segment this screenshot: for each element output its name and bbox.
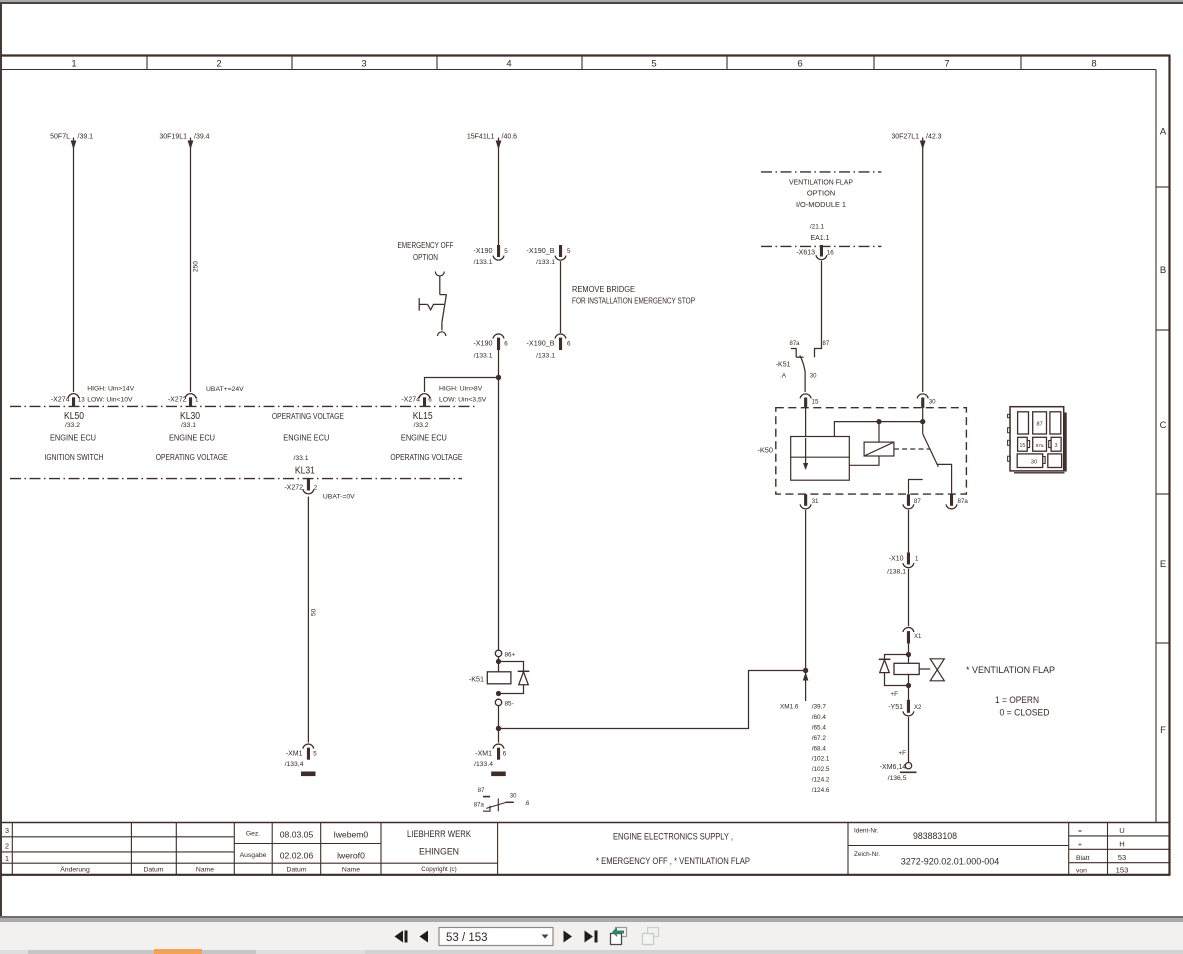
svg-text:6: 6 <box>567 340 571 347</box>
svg-text:1: 1 <box>195 397 199 404</box>
svg-text:-XM6,14: -XM6,14 <box>880 764 907 771</box>
svg-text:87a: 87a <box>474 803 485 809</box>
svg-text:KL50: KL50 <box>64 411 84 422</box>
arrow inside control block <box>803 438 808 470</box>
svg-text:OPTION: OPTION <box>807 189 835 198</box>
svg-text:/42.3: /42.3 <box>926 134 942 141</box>
wire solenoid to X2 <box>908 675 910 700</box>
window left edge <box>0 3 2 916</box>
svg-text:86+: 86+ <box>505 651 516 658</box>
svg-text:/133.1: /133.1 <box>536 352 555 359</box>
label VENTILATION FLAP OPTION I/O-MODULE 1 <box>789 178 853 209</box>
svg-text:ENGINE ECU: ENGINE ECU <box>401 433 447 443</box>
svg-text:6: 6 <box>428 397 432 404</box>
svg-text:* EMERGENCY OFF , * VENTILATIO: * EMERGENCY OFF , * VENTILATION FLAP <box>596 856 750 866</box>
wire rail to K50 coil <box>878 422 880 443</box>
sheet reference list <box>812 704 830 794</box>
wire X190 p6 down <box>498 350 500 378</box>
ground bar col3 <box>301 772 316 777</box>
svg-text:1: 1 <box>71 59 76 70</box>
svg-text:/21.1: /21.1 <box>810 224 825 231</box>
svg-text:87: 87 <box>823 341 830 347</box>
svg-text:OPERATING VOLTAGE: OPERATING VOLTAGE <box>272 411 344 421</box>
svg-text:2: 2 <box>216 59 221 70</box>
svg-text:Ident-Nr.: Ident-Nr. <box>854 828 879 835</box>
svg-text:F: F <box>1160 725 1166 736</box>
svg-text:6: 6 <box>797 59 802 70</box>
node junction to KL15 <box>496 375 501 380</box>
svg-text:15: 15 <box>812 399 819 406</box>
svg-text:-K51: -K51 <box>776 362 791 369</box>
connector K50 pin 30 <box>917 394 928 408</box>
svg-text:153: 153 <box>1116 866 1129 875</box>
svg-text:-X613: -X613 <box>796 250 815 257</box>
svg-text:1 = OPERN: 1 = OPERN <box>995 694 1039 705</box>
wire pin30 to contact pivot <box>922 408 924 434</box>
svg-text:A: A <box>1160 127 1167 138</box>
svg-text:87: 87 <box>478 788 485 794</box>
svg-text:85-: 85- <box>505 700 514 707</box>
svg-text:/39.4: /39.4 <box>194 134 210 141</box>
svg-text:87a: 87a <box>1036 443 1044 449</box>
svg-text:250: 250 <box>193 261 200 272</box>
svg-text:C: C <box>1160 420 1167 431</box>
svg-text:Name: Name <box>196 867 214 874</box>
ruler column ticks <box>147 56 1021 70</box>
diode D (flyback across Y51 solenoid) <box>879 655 909 686</box>
svg-text:/138,1: /138,1 <box>887 569 906 576</box>
K50 control block <box>791 437 850 481</box>
svg-text:30: 30 <box>929 399 936 406</box>
wire blade to pin 87a <box>937 464 952 494</box>
header labels Aenderung Datum Name <box>60 866 214 874</box>
wire 85- net to XM1.6 node <box>499 671 806 729</box>
svg-text:1: 1 <box>5 854 9 863</box>
TITLEBLOCK <box>1 823 1170 875</box>
svg-text:/102.5: /102.5 <box>812 766 830 773</box>
K51 contact blade to pin 30 <box>800 355 805 392</box>
svg-text:+F: +F <box>898 750 906 757</box>
svg-text:0 = CLOSED: 0 = CLOSED <box>1000 706 1050 717</box>
svg-text:/124.2: /124.2 <box>812 777 830 784</box>
SCHEMATIC3 <box>757 172 1065 794</box>
row letters <box>1160 127 1167 737</box>
label EMERGENCY OFF OPTION <box>398 241 454 262</box>
svg-text:.6: .6 <box>524 801 530 807</box>
svg-text:/65.4: /65.4 <box>812 725 827 732</box>
ground bar col4 <box>491 772 506 777</box>
wire 15F41L1 (sheet ref /40.6) with down arrow <box>496 138 502 246</box>
svg-text:15F41L1: 15F41L1 <box>467 134 495 141</box>
node branch to K50 pin31 net <box>496 726 501 731</box>
connector -X274 pin 13 (KL50) <box>68 394 79 407</box>
connector -X190 pin 5 <box>493 245 504 260</box>
terminal -XM1 pin 6 <box>493 744 504 760</box>
svg-text:* VENTILATION FLAP: * VENTILATION FLAP <box>966 664 1055 675</box>
svg-text:/60.4: /60.4 <box>812 714 827 721</box>
chassis bar XM6,14 <box>900 771 917 773</box>
svg-text:Datum: Datum <box>286 867 306 874</box>
valve link <box>919 668 930 670</box>
label HIGH/LOW thresholds KL50 <box>87 386 134 404</box>
connector -X10 pin 1 <box>903 553 914 568</box>
svg-text:/68.4: /68.4 <box>812 745 827 752</box>
svg-text:X2: X2 <box>914 705 922 711</box>
svg-text:lwebem0: lwebem0 <box>334 830 369 840</box>
right ruler inner line <box>1155 70 1157 823</box>
connector -X272 pin 1 (KL30) <box>185 394 196 407</box>
SCHEMATIC2 <box>390 241 805 811</box>
svg-text:2: 2 <box>5 842 9 851</box>
svg-text:02.02.06: 02.02.06 <box>280 851 314 861</box>
svg-text:30F19L1: 30F19L1 <box>159 134 187 141</box>
svg-text:50F7L: 50F7L <box>50 134 70 141</box>
svg-text:I/O-MODULE 1: I/O-MODULE 1 <box>796 200 846 209</box>
svg-text:Datum: Datum <box>143 867 163 874</box>
svg-text:U: U <box>1119 826 1124 835</box>
svg-text:Name: Name <box>342 867 360 874</box>
connector -X274 pin 6 (KL15) <box>419 394 430 407</box>
svg-text:.A: .A <box>780 373 787 380</box>
wire block top to supply rail <box>834 422 922 437</box>
svg-text:HIGH: Uin>8V: HIGH: Uin>8V <box>439 386 483 393</box>
connector X1 <box>903 627 914 643</box>
wire X10 to X1 <box>908 569 910 626</box>
svg-text:/33.1: /33.1 <box>181 422 196 429</box>
svg-text:15: 15 <box>1020 443 1026 449</box>
wire 30F27L1 (sheet ref /42.3) with down arrow <box>920 138 926 393</box>
ventilation flap option boundary lower dash-dot <box>761 245 881 247</box>
svg-text:/40.6: /40.6 <box>502 134 518 141</box>
svg-text:53: 53 <box>1118 853 1126 862</box>
svg-text:EMERGENCY OFF: EMERGENCY OFF <box>398 241 454 250</box>
svg-text:ENGINE ECU: ENGINE ECU <box>283 433 329 443</box>
wire junction down to K51 coil <box>498 378 500 651</box>
svg-text:-X190_B: -X190_B <box>527 338 555 347</box>
connector K50 pin 31 <box>800 494 811 509</box>
wire 85 down to XM1 <box>498 706 500 743</box>
svg-text:/133.1: /133.1 <box>474 352 493 359</box>
svg-text:Copyright (c): Copyright (c) <box>421 866 456 873</box>
svg-text:X1: X1 <box>914 634 922 640</box>
svg-text:-Y51: -Y51 <box>888 704 903 711</box>
node XM1.6 junction <box>803 668 808 673</box>
row ruler ticks <box>1156 187 1170 643</box>
svg-text:Gez.: Gez. <box>246 831 260 838</box>
terminal -XM1 pin 5 <box>303 744 314 760</box>
pushbutton S (emergency off, NC with detent) <box>419 272 446 337</box>
svg-text:von: von <box>1076 868 1087 875</box>
svg-text:OPERATING VOLTAGE: OPERATING VOLTAGE <box>390 452 462 462</box>
window top edge bar <box>0 0 1183 2</box>
connector -X272 pin 2 (KL31) <box>303 479 314 494</box>
svg-text:13: 13 <box>78 397 85 404</box>
svg-text:30: 30 <box>510 793 517 799</box>
svg-text:/33.2: /33.2 <box>65 422 80 429</box>
svg-text:HIGH: Uin>14V: HIGH: Uin>14V <box>87 386 134 393</box>
svg-text:Änderung: Änderung <box>60 866 90 874</box>
svg-text:REMOVE BRIDGE: REMOVE BRIDGE <box>572 285 635 294</box>
svg-text:30F27L1: 30F27L1 <box>891 134 919 141</box>
relay -K50 dashed enclosure <box>776 408 967 494</box>
wire KL31 to XM1 <box>307 497 309 743</box>
svg-text:EHINGEN: EHINGEN <box>419 847 459 857</box>
valve body (bowtie) <box>930 659 944 681</box>
column ruler bottom line <box>2 69 1156 71</box>
svg-text:E: E <box>1160 559 1166 570</box>
viewer toolbar <box>0 916 1183 918</box>
company LIEBHERR WERK EHINGEN <box>407 829 471 857</box>
svg-text:50: 50 <box>311 608 318 616</box>
svg-text:Blatt: Blatt <box>1076 855 1090 862</box>
svg-text:/133.4: /133.4 <box>474 761 493 768</box>
relay socket pinout view <box>1008 407 1066 473</box>
svg-text:3272-920.02.01.000-004: 3272-920.02.01.000-004 <box>901 857 1000 867</box>
svg-text:/133,4: /133,4 <box>285 761 304 768</box>
mini table values U H 53 153 <box>1116 826 1129 875</box>
column numbers 1-8 <box>71 59 1096 70</box>
svg-text:ENGINE ELECTRONICS SUPPLY ,: ENGINE ELECTRONICS SUPPLY , <box>613 832 733 842</box>
sheet ref arrow XM1.6 <box>803 672 809 701</box>
svg-text:-X274: -X274 <box>51 397 70 404</box>
wire pin31 to XM1.6 node <box>805 510 807 671</box>
node valve diode top <box>906 652 911 657</box>
svg-text:H: H <box>1119 840 1124 849</box>
svg-text:30: 30 <box>810 374 817 380</box>
K51 contact 87a terminal <box>791 349 804 358</box>
svg-text:16: 16 <box>827 250 834 257</box>
svg-text:6: 6 <box>503 751 507 758</box>
svg-text:87: 87 <box>914 498 921 505</box>
svg-text:+F: +F <box>890 691 898 698</box>
svg-text:31: 31 <box>812 498 819 505</box>
relay coil -K51 <box>487 672 511 684</box>
svg-text:/102.1: /102.1 <box>812 756 830 763</box>
svg-text:3: 3 <box>361 59 366 70</box>
node valve diode bottom <box>906 683 911 688</box>
svg-text:ENGINE ECU: ENGINE ECU <box>169 433 215 443</box>
node rail-coil junction <box>876 419 881 424</box>
revision row numbers 3 2 1 <box>5 826 9 863</box>
ventilation flap option boundary upper dash-dot <box>761 171 881 173</box>
svg-text:08.03.05: 08.03.05 <box>280 830 314 840</box>
svg-text:/133.1: /133.1 <box>474 259 493 266</box>
contact 87 terminal L <box>909 480 923 495</box>
svg-text:2: 2 <box>314 485 318 492</box>
terminal 85- circle <box>495 699 501 705</box>
wire X2 to XM6,14 <box>908 717 910 762</box>
svg-text:lwerof0: lwerof0 <box>337 851 365 861</box>
wire pin15 into control block <box>805 408 807 437</box>
svg-text:KL31: KL31 <box>295 466 315 477</box>
diode D (flyback across K51 coil) <box>499 662 530 694</box>
terminal 86+ circle <box>495 650 501 656</box>
node rail-pin30 junction <box>920 419 925 424</box>
K50 contact blade <box>923 434 939 467</box>
svg-text:5: 5 <box>313 751 317 758</box>
connector K50 pin 15 <box>800 394 811 408</box>
svg-text:FOR INSTALLATION EMERGENCY STO: FOR INSTALLATION EMERGENCY STOP <box>572 297 695 306</box>
taskbar bottom sliver <box>0 950 1183 954</box>
node diode branch top <box>496 659 501 664</box>
connector -X190_B pin 5 <box>555 245 566 260</box>
svg-text:87: 87 <box>1036 422 1042 428</box>
wire coil to control block <box>849 456 879 465</box>
svg-text:5: 5 <box>651 59 656 70</box>
svg-text:-XM1: -XM1 <box>286 751 303 758</box>
connector -X190 pin 6 <box>493 334 504 350</box>
wire 50F7L (sheet ref /39.1) with down arrow <box>71 138 77 393</box>
svg-text:Ausgabe: Ausgabe <box>240 852 267 859</box>
svg-text:-X272: -X272 <box>284 485 303 492</box>
svg-text:-X190: -X190 <box>473 338 492 347</box>
svg-text:-K51: -K51 <box>469 674 484 683</box>
bridge wire X190_B 5-6 <box>560 261 562 333</box>
connector X2 <box>903 700 914 716</box>
connector -X613 pin 16 <box>816 245 827 260</box>
ECU boundary dash-dot line lower <box>10 478 462 480</box>
svg-text:=: = <box>1078 828 1082 835</box>
svg-text:3: 3 <box>5 826 9 835</box>
wire X613 to K51 contact <box>815 261 822 358</box>
svg-text:4: 4 <box>506 59 511 70</box>
svg-text:LIEBHERR WERK: LIEBHERR WERK <box>407 829 471 839</box>
svg-text:3: 3 <box>1055 443 1058 449</box>
svg-text:1: 1 <box>915 556 919 563</box>
connector -X190_B pin 6 <box>555 334 566 350</box>
svg-text:-XM1: -XM1 <box>475 751 492 758</box>
svg-text:-K50: -K50 <box>757 446 773 455</box>
svg-text:UBAT+=24V: UBAT+=24V <box>206 386 244 393</box>
svg-text:Zeich-Nr.: Zeich-Nr. <box>854 851 880 858</box>
svg-text:IGNITION SWITCH: IGNITION SWITCH <box>45 452 104 462</box>
mini table labels <box>1076 828 1090 875</box>
svg-text:-X272: -X272 <box>168 397 187 404</box>
svg-text:/33.1: /33.1 <box>293 455 308 462</box>
svg-text:5: 5 <box>567 248 571 255</box>
svg-text:+: + <box>1078 842 1082 849</box>
svg-text:KL15: KL15 <box>413 411 433 422</box>
connector K50 pin 87a <box>946 494 957 509</box>
wire to KL15 connector <box>425 378 499 393</box>
node diode branch bottom <box>496 691 501 696</box>
wire X1 to valve <box>908 644 910 664</box>
svg-text:XM1.6: XM1.6 <box>780 704 799 711</box>
wire 86 to coil <box>498 657 500 672</box>
svg-text:EA1.1: EA1.1 <box>810 235 829 242</box>
svg-text:B: B <box>1160 265 1166 276</box>
svg-text:7: 7 <box>944 59 949 70</box>
wire 30F19L1 (sheet ref /39.4) with down arrow <box>188 138 194 393</box>
svg-text:8: 8 <box>1091 59 1096 70</box>
svg-text:53 / 153: 53 / 153 <box>446 932 488 944</box>
svg-text:VENTILATION FLAP: VENTILATION FLAP <box>789 178 853 187</box>
svg-text:87a: 87a <box>958 498 969 505</box>
svg-text:LOW: Uin<3,5V: LOW: Uin<3,5V <box>439 396 487 403</box>
svg-text:/39.7: /39.7 <box>812 704 827 711</box>
TOOLBAR <box>385 924 675 954</box>
svg-text:-X190_B: -X190_B <box>527 246 555 255</box>
svg-text:/39.1: /39.1 <box>78 134 94 141</box>
svg-text:/67.2: /67.2 <box>812 735 827 742</box>
svg-text:/33.2: /33.2 <box>413 422 428 429</box>
svg-text:983883108: 983883108 <box>913 831 957 841</box>
solenoid -Y51 (coil rect) <box>894 663 919 674</box>
svg-text:KL30: KL30 <box>180 411 200 422</box>
connector K50 pin 87 <box>903 494 914 509</box>
svg-text:6: 6 <box>504 340 508 347</box>
svg-text:87a: 87a <box>790 341 801 347</box>
K51 contact cross-reference pictogram <box>483 797 514 812</box>
title block grid <box>1 823 1170 875</box>
svg-text:30: 30 <box>1031 460 1037 466</box>
svg-text:OPTION: OPTION <box>413 253 438 262</box>
ECU boundary dash-dot line upper <box>10 405 478 407</box>
svg-text:-X10: -X10 <box>889 556 904 563</box>
svg-text:/124.6: /124.6 <box>812 787 830 794</box>
svg-text:LOW: Uin<10V: LOW: Uin<10V <box>87 396 133 403</box>
label REMOVE BRIDGE note <box>572 285 695 306</box>
svg-text:/133.1: /133.1 <box>536 259 555 266</box>
K50 coil (rect with diagonal) <box>864 442 894 456</box>
svg-text:5: 5 <box>504 248 508 255</box>
svg-text:/136,5: /136,5 <box>888 775 907 782</box>
sub labels Datum Name <box>286 867 360 874</box>
svg-text:-X274: -X274 <box>401 397 420 404</box>
svg-text:UBAT-=0V: UBAT-=0V <box>323 494 355 501</box>
svg-text:ENGINE ECU: ENGINE ECU <box>50 433 96 443</box>
label HIGH/LOW thresholds KL15 <box>439 386 487 404</box>
wire pin87 to X10 <box>908 510 910 553</box>
terminal -XM6,14 circle <box>905 763 911 769</box>
coil-contact mechanical link (dashed) <box>894 448 931 450</box>
svg-text:OPERATING VOLTAGE: OPERATING VOLTAGE <box>156 452 228 462</box>
svg-text:-X190: -X190 <box>473 246 492 255</box>
